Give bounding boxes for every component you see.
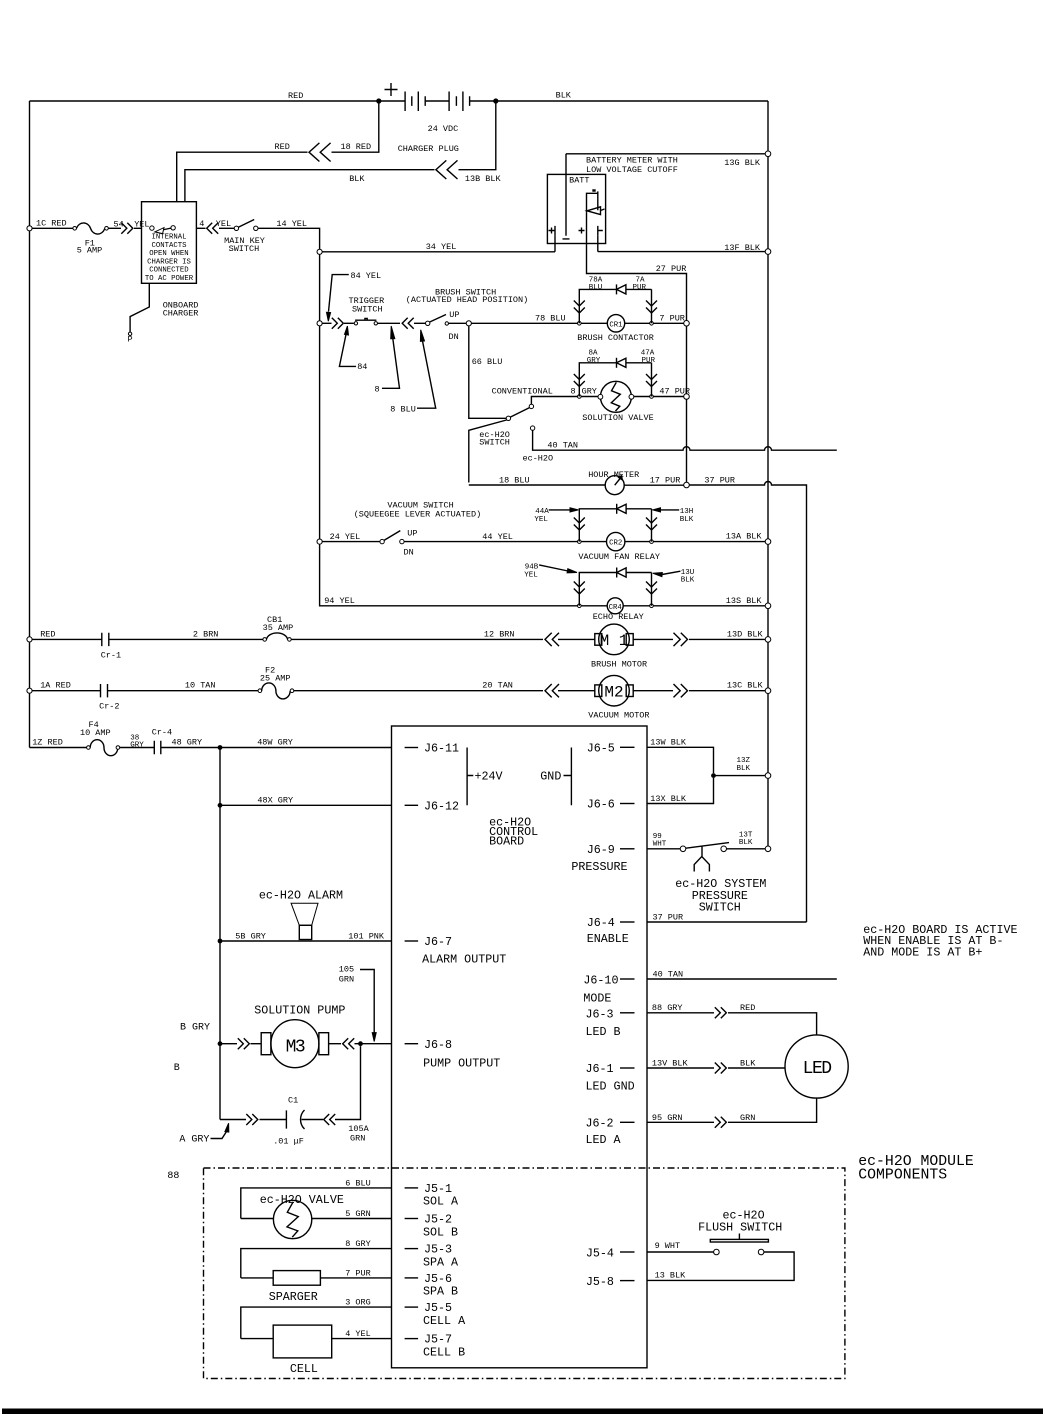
svg-text:GRY: GRY — [130, 742, 144, 750]
wire 48 GRY / 48W GRY to control board — [161, 738, 392, 748]
svg-text:LED GND: LED GND — [586, 1079, 635, 1093]
svg-text:CHARGER: CHARGER — [163, 309, 199, 319]
svg-text:SOLUTION VALVE: SOLUTION VALVE — [582, 413, 653, 423]
pointer label 105 GRN — [339, 965, 376, 1042]
svg-text:M 1: M 1 — [600, 632, 629, 650]
svg-text:13F BLK: 13F BLK — [724, 243, 761, 253]
svg-text:ec-H2O VALVE: ec-H2O VALVE — [260, 1193, 344, 1207]
svg-text:B: B — [174, 1063, 180, 1074]
junction 48X — [218, 803, 223, 808]
svg-text:BRUSH MOTOR: BRUSH MOTOR — [591, 660, 647, 670]
svg-text:BLK: BLK — [680, 516, 694, 524]
+24V bracket — [467, 748, 502, 806]
wire 3 ORG — [241, 1298, 392, 1339]
motor M2 vacuum motor — [558, 675, 650, 720]
svg-text:YEL: YEL — [534, 516, 548, 524]
svg-text:SWITCH: SWITCH — [479, 438, 510, 448]
connector 4 YEL — [196, 219, 234, 234]
svg-text:7 PUR: 7 PUR — [345, 1268, 371, 1278]
svg-text:4: 4 — [199, 219, 204, 229]
svg-text:CELL: CELL — [290, 1362, 318, 1376]
wire 8 GRY — [241, 1239, 392, 1278]
motor M3 solution pump — [254, 1004, 345, 1068]
junction 13Z — [711, 773, 716, 778]
svg-text:14 YEL: 14 YEL — [276, 219, 307, 229]
svg-text:CELL A: CELL A — [423, 1314, 466, 1328]
junction solution valve left — [578, 395, 582, 399]
svg-text:BATTERY METER WITH: BATTERY METER WITH — [586, 156, 678, 166]
circuit breaker CB1 35 AMP — [263, 615, 294, 641]
ground lead P of charger — [128, 283, 150, 344]
svg-text:.01 μF: .01 μF — [273, 1137, 304, 1147]
capacitor C1 .01 uF — [260, 1096, 370, 1147]
svg-text:17 PUR: 17 PUR — [650, 476, 681, 486]
wire 18 BLU diagonal from switch pivot — [469, 420, 507, 483]
node junction at battery left — [376, 98, 381, 103]
svg-text:ECHO RELAY: ECHO RELAY — [593, 612, 644, 622]
svg-text:84: 84 — [357, 362, 367, 372]
node 7 PUR on 27 PUR vertical — [684, 321, 690, 327]
wire 13B BLK with connector to charger box — [185, 101, 502, 202]
svg-text:ec-H2O ALARM: ec-H2O ALARM — [259, 889, 343, 903]
svg-text:CR1: CR1 — [609, 321, 623, 329]
svg-text:MODE: MODE — [583, 991, 611, 1005]
pin J5-8 — [586, 1275, 635, 1289]
wire 13G BLK — [566, 154, 765, 175]
svg-text:+24V: +24V — [475, 770, 503, 784]
svg-text:PUR: PUR — [633, 284, 647, 292]
svg-text:B GRY: B GRY — [180, 1023, 210, 1034]
svg-text:GRN: GRN — [350, 1134, 365, 1144]
wire 13F BLK — [598, 236, 765, 253]
wire 13C BLK with connector — [633, 681, 765, 698]
connector before brush switch — [378, 318, 426, 329]
pin J6-5 — [587, 741, 635, 755]
pin J5-4 — [586, 1247, 635, 1261]
svg-text:24 VDC: 24 VDC — [428, 124, 459, 134]
wire 13W BLK — [647, 738, 714, 774]
svg-text:J6-10: J6-10 — [583, 973, 618, 987]
node 13Z on right bus — [765, 773, 771, 779]
svg-text:BOARD: BOARD — [489, 835, 524, 849]
CR4 suppression diode bridge — [574, 568, 657, 606]
connector / wire to J6-8 — [329, 1038, 392, 1049]
wire 13A BLK — [653, 532, 765, 542]
motor M1 brush motor — [558, 624, 647, 669]
svg-text:13W BLK: 13W BLK — [650, 738, 687, 748]
svg-text:LOW VOLTAGE CUTOFF: LOW VOLTAGE CUTOFF — [586, 165, 678, 175]
svg-text:UP: UP — [407, 529, 417, 539]
svg-text:(ACTUATED HEAD POSITION): (ACTUATED HEAD POSITION) — [406, 295, 528, 305]
pointer label 44A YEL — [534, 508, 578, 524]
GND bracket — [540, 748, 571, 806]
relay coil CR1 brush contactor — [577, 315, 654, 343]
junction 5B GRY — [218, 939, 223, 944]
svg-text:J5-3: J5-3 — [424, 1243, 452, 1257]
node 13A on right bus — [765, 539, 771, 545]
svg-text:HOUR METER: HOUR METER — [588, 470, 639, 480]
fuse F4 10 AMP on 1Z RED row — [30, 720, 120, 756]
wire 27 PUR — [587, 212, 687, 482]
wire 44 YEL — [404, 532, 577, 542]
svg-text:SWITCH: SWITCH — [352, 305, 383, 315]
svg-text:BLU: BLU — [589, 284, 603, 292]
ec-H2O control board box — [392, 726, 648, 1368]
svg-text:8 GRY: 8 GRY — [345, 1239, 371, 1249]
svg-text:GRY: GRY — [587, 357, 601, 365]
pin J6-3 LED B — [586, 1008, 635, 1040]
svg-text:TO AC POWER: TO AC POWER — [145, 275, 194, 283]
sparger SP1 — [241, 1268, 392, 1304]
svg-text:40 TAN: 40 TAN — [547, 441, 578, 451]
pin J6-4 enable — [587, 916, 635, 946]
svg-text:CONNECTED: CONNECTED — [149, 267, 189, 275]
wire 37 PUR enable — [647, 913, 807, 923]
junction CR4 right — [650, 604, 654, 608]
node 13C on right bus — [765, 688, 771, 694]
svg-text:J5-8: J5-8 — [586, 1275, 614, 1289]
trigger switch S2 (pushbutton) — [344, 296, 384, 325]
svg-text:J6-3: J6-3 — [586, 1008, 614, 1022]
junction B GRY — [174, 1023, 223, 1075]
onboard charger box with internal contacts — [142, 202, 199, 319]
battery meter box BATT with low voltage cutoff — [547, 156, 677, 244]
svg-text:13H: 13H — [680, 508, 694, 516]
label 88 — [167, 1171, 179, 1182]
svg-text:101 PNK: 101 PNK — [348, 932, 385, 942]
svg-text:44A: 44A — [535, 508, 549, 516]
junction solution valve right — [650, 395, 654, 399]
ec-H2O system pressure switch S6 — [647, 832, 766, 915]
svg-text:27 PUR: 27 PUR — [656, 264, 687, 274]
capacitor Cr-4 — [120, 728, 172, 755]
wire 48 GRY sub-bus vertical — [219, 748, 221, 1120]
node 13D on right bus — [765, 637, 771, 643]
battery BT1 24 VDC charger plug — [379, 83, 496, 154]
svg-text:13V BLK: 13V BLK — [652, 1059, 689, 1069]
svg-text:37 PUR: 37 PUR — [653, 913, 684, 923]
pin J6-10 mode — [583, 973, 634, 1005]
svg-text:BRUSH CONTACTOR: BRUSH CONTACTOR — [577, 333, 654, 343]
svg-text:13G BLK: 13G BLK — [724, 158, 761, 168]
brush switch S3 (actuated head position) — [406, 288, 528, 342]
svg-text:CHARGER IS: CHARGER IS — [147, 258, 191, 266]
wire from pump junction down to C1 row — [335, 1046, 361, 1119]
svg-text:C1: C1 — [288, 1096, 298, 1106]
svg-text:J6-5: J6-5 — [587, 741, 615, 755]
svg-text:88: 88 — [167, 1171, 179, 1182]
svg-text:SOL B: SOL B — [423, 1226, 458, 1240]
relay coil CR4 echo relay — [581, 598, 650, 622]
svg-text:J6-8: J6-8 — [424, 1038, 452, 1052]
junction CR2 right — [650, 540, 654, 544]
node 1C RED on left bus — [27, 219, 67, 231]
svg-text:5B GRY: 5B GRY — [235, 932, 266, 942]
svg-text:ALARM OUTPUT: ALARM OUTPUT — [422, 953, 506, 967]
svg-text:13A BLK: 13A BLK — [726, 532, 763, 542]
svg-text:RED: RED — [275, 142, 290, 152]
node RED brush motor row on left bus — [27, 630, 56, 643]
wire 5B GRY / 101 PNK alarm output row — [220, 932, 392, 942]
svg-text:PRESSURE: PRESSURE — [571, 860, 627, 874]
alarm AL1 ec-H2O alarm — [259, 889, 343, 940]
svg-text:88 GRY: 88 GRY — [652, 1003, 683, 1013]
svg-text:J5-7: J5-7 — [424, 1333, 452, 1347]
wire 94 YEL — [320, 544, 578, 606]
svg-text:J6-9: J6-9 — [587, 843, 615, 857]
svg-text:YEL: YEL — [216, 219, 231, 229]
node 13T on right bus — [765, 846, 771, 852]
connector on trigger row — [322, 318, 343, 329]
svg-text:12 BRN: 12 BRN — [484, 630, 515, 640]
svg-text:RED: RED — [40, 630, 55, 640]
svg-text:48X GRY: 48X GRY — [257, 796, 293, 806]
svg-text:BLK: BLK — [740, 1059, 756, 1069]
svg-text:SPA B: SPA B — [423, 1285, 458, 1299]
svg-text:CONTACTS: CONTACTS — [151, 242, 187, 250]
pin J5-5 cell A — [405, 1301, 466, 1328]
svg-text:3 ORG: 3 ORG — [345, 1298, 371, 1308]
svg-text:FLUSH SWITCH: FLUSH SWITCH — [698, 1221, 782, 1235]
relay coil CR2 vacuum fan relay — [578, 532, 660, 562]
connector 54 YEL — [108, 220, 149, 234]
svg-text:VACUUM FAN RELAY: VACUUM FAN RELAY — [578, 552, 660, 562]
svg-text:48 GRY: 48 GRY — [172, 738, 203, 748]
capacitor Cr-2 — [32, 681, 258, 712]
svg-text:18 RED: 18 RED — [341, 142, 372, 152]
pin J5-2 sol B — [405, 1213, 458, 1240]
svg-text:95 GRN: 95 GRN — [652, 1113, 683, 1123]
node 1A RED vacuum motor row on left bus — [27, 681, 71, 694]
svg-text:BLK: BLK — [681, 577, 695, 585]
svg-text:13 BLK: 13 BLK — [655, 1271, 687, 1281]
wire 13Z BLK — [714, 757, 766, 776]
wire 13X BLK — [647, 778, 714, 804]
svg-text:7 PUR: 7 PUR — [659, 314, 685, 324]
svg-text:Cr-2: Cr-2 — [99, 702, 119, 712]
wire top BLK from battery to right bus — [496, 91, 768, 102]
connector on C1 row left — [220, 1114, 258, 1125]
svg-text:66 BLU: 66 BLU — [472, 357, 503, 367]
svg-text:SOL A: SOL A — [423, 1195, 459, 1209]
svg-text:BLK: BLK — [556, 91, 572, 101]
svg-text:GRY: GRY — [582, 387, 597, 397]
svg-text:BLK: BLK — [737, 765, 751, 773]
svg-text:INTERNAL: INTERNAL — [151, 234, 186, 242]
wire 6 BLU — [241, 1179, 392, 1219]
capacitor Cr-1 — [32, 630, 263, 661]
svg-text:CR2: CR2 — [609, 540, 622, 548]
svg-text:10 AMP: 10 AMP — [80, 728, 111, 738]
pin J6-11 — [405, 742, 459, 756]
wire 17 PUR — [624, 476, 684, 486]
note text ec-H2O board active — [863, 923, 1017, 959]
wire 13S BLK — [653, 596, 765, 606]
pin J5-6 spa B — [405, 1272, 458, 1299]
svg-text:8: 8 — [571, 387, 576, 397]
wire 47 PUR — [653, 396, 683, 398]
ec-H2O module components dashed box — [204, 1154, 974, 1379]
svg-text:5 AMP: 5 AMP — [77, 246, 103, 256]
svg-text:10 TAN: 10 TAN — [185, 681, 216, 691]
svg-text:Cr-4: Cr-4 — [152, 728, 172, 738]
node 17 PUR end of 27 PUR vertical — [684, 482, 690, 488]
pin J6-9 pressure — [571, 843, 634, 874]
ec-H2O flush switch S7 — [647, 1209, 794, 1281]
junction CR1 left — [578, 322, 582, 326]
wire 13D BLK with connector — [633, 630, 765, 647]
svg-text:84 YEL: 84 YEL — [351, 271, 382, 281]
ec-H2O switch S4 — [479, 387, 553, 448]
svg-text:LED A: LED A — [586, 1133, 622, 1147]
svg-text:13D BLK: 13D BLK — [727, 630, 764, 640]
pin J6-12 — [405, 799, 459, 813]
svg-text:105A: 105A — [348, 1124, 369, 1134]
svg-text:WHT: WHT — [653, 841, 667, 849]
svg-text:P: P — [128, 335, 133, 345]
cell CEL1 — [241, 1325, 392, 1376]
svg-text:COMPONENTS: COMPONENTS — [858, 1168, 947, 1184]
pointer label 84 — [339, 326, 367, 372]
svg-text:105: 105 — [339, 965, 354, 975]
wire top RED from left bus to battery — [30, 91, 379, 101]
wire 88 GRY / RED to LED — [647, 1003, 817, 1035]
CR1 suppression diode bridge with connectors 78A BLU / 7A PUR — [574, 277, 657, 324]
svg-text:J6-12: J6-12 — [424, 799, 459, 813]
svg-text:J5-5: J5-5 — [424, 1301, 452, 1315]
svg-text:(SQUEEGEE LEVER ACTUATED): (SQUEEGEE LEVER ACTUATED) — [354, 510, 482, 520]
junction CR1 right — [650, 322, 654, 326]
node 13S on right bus — [765, 603, 771, 609]
svg-text:GRN: GRN — [339, 975, 354, 985]
wire 20 TAN with connector — [294, 681, 559, 698]
pointer label 84 YEL — [327, 271, 382, 321]
pointer label 94B YEL — [524, 564, 577, 580]
svg-text:DN: DN — [449, 332, 459, 342]
node 13G on right bus — [765, 151, 771, 157]
svg-text:YEL: YEL — [524, 572, 538, 580]
svg-text:24 YEL: 24 YEL — [330, 532, 361, 542]
svg-text:J6-7: J6-7 — [424, 935, 452, 949]
svg-text:44 YEL: 44 YEL — [482, 532, 513, 542]
svg-text:13C BLK: 13C BLK — [727, 681, 764, 691]
svg-text:BLK: BLK — [739, 839, 753, 847]
pin J6-7 alarm output — [405, 935, 507, 967]
pin J6-2 LED A — [586, 1117, 635, 1148]
svg-text:13X BLK: 13X BLK — [650, 794, 687, 804]
pointer label 13H BLK — [653, 508, 694, 524]
svg-text:6 BLU: 6 BLU — [345, 1179, 371, 1189]
svg-text:J6-11: J6-11 — [424, 742, 459, 756]
svg-text:A GRY: A GRY — [179, 1135, 209, 1146]
svg-text:18 BLU: 18 BLU — [499, 476, 530, 486]
svg-text:Cr-1: Cr-1 — [101, 651, 121, 661]
node 47 PUR on 27 PUR vertical — [684, 394, 690, 400]
svg-text:BATT: BATT — [569, 176, 589, 186]
svg-text:PUR: PUR — [642, 357, 656, 365]
fuse F2 25 AMP — [258, 666, 294, 699]
svg-text:1C RED: 1C RED — [36, 219, 67, 229]
node junction at battery right — [493, 98, 498, 103]
wire conventional contact to solution valve row — [531, 397, 577, 405]
svg-text:8 BLU: 8 BLU — [390, 405, 416, 415]
svg-text:13B BLK: 13B BLK — [465, 174, 502, 184]
svg-text:5 GRN: 5 GRN — [345, 1209, 371, 1219]
wire left bus vertical — [29, 101, 31, 748]
connector on C1 row right — [302, 1114, 336, 1125]
svg-text:GND: GND — [540, 770, 561, 784]
svg-text:J5-4: J5-4 — [586, 1247, 614, 1261]
svg-text:4 YEL: 4 YEL — [345, 1329, 371, 1339]
wire 48X GRY — [220, 796, 392, 806]
wire right BLK bus vertical — [767, 101, 769, 846]
pin J6-1 LED GND — [586, 1062, 635, 1093]
svg-text:RED: RED — [288, 91, 303, 101]
svg-text:PUMP OUTPUT: PUMP OUTPUT — [423, 1057, 500, 1071]
node 13F on right bus — [765, 249, 771, 255]
solution valve SOL2 — [571, 381, 691, 423]
svg-text:DN: DN — [404, 548, 414, 558]
svg-text:CONVENTIONAL: CONVENTIONAL — [492, 387, 553, 397]
node vacuum switch row — [317, 539, 322, 544]
svg-text:13Z: 13Z — [737, 757, 751, 765]
svg-text:OPEN WHEN: OPEN WHEN — [149, 250, 188, 258]
svg-text:LED B: LED B — [586, 1025, 621, 1039]
hour meter HM1 — [469, 470, 639, 495]
svg-text:78 BLU: 78 BLU — [535, 314, 566, 324]
CR2 suppression diode bridge — [574, 504, 657, 542]
wire 14 YEL vertical to trigger row — [319, 254, 321, 539]
svg-text:25 AMP: 25 AMP — [260, 674, 291, 684]
node 66 BLU drop — [466, 321, 577, 326]
svg-text:8: 8 — [375, 385, 380, 395]
svg-text:13S BLK: 13S BLK — [726, 596, 763, 606]
wire 66 BLU vertical — [469, 326, 506, 418]
svg-text:CHARGER PLUG: CHARGER PLUG — [398, 144, 459, 154]
svg-text:9 WHT: 9 WHT — [655, 1241, 681, 1251]
pointer label 13U BLK — [653, 569, 695, 585]
svg-text:RED: RED — [740, 1003, 755, 1013]
svg-text:LED: LED — [803, 1059, 832, 1079]
node on 14 YEL vertical — [317, 249, 322, 254]
pin J6-8 pump output — [405, 1038, 501, 1071]
wire 14 YEL — [258, 219, 320, 249]
ec-H2O valve SOL3 — [241, 1193, 392, 1239]
svg-text:2 BRN: 2 BRN — [193, 630, 219, 640]
svg-text:SPARGER: SPARGER — [269, 1290, 318, 1304]
pointer label 8 — [375, 326, 400, 395]
svg-text:M3: M3 — [286, 1038, 305, 1058]
svg-text:VACUUM MOTOR: VACUUM MOTOR — [588, 711, 649, 721]
wire 7 PUR — [653, 314, 685, 324]
svg-text:SWITCH: SWITCH — [229, 244, 260, 254]
svg-text:GRN: GRN — [740, 1113, 755, 1123]
svg-text:48W GRY: 48W GRY — [257, 738, 293, 748]
junction CR2 left — [578, 540, 582, 544]
wire 37 PUR to right vertical — [689, 476, 806, 923]
junction 48 GRY — [218, 745, 223, 750]
svg-text:SPA A: SPA A — [423, 1256, 459, 1270]
svg-text:BLK: BLK — [349, 174, 365, 184]
connector on pump row — [222, 1038, 261, 1049]
pin J5-3 spa A — [405, 1243, 459, 1270]
svg-text:94B: 94B — [525, 564, 539, 572]
svg-text:J6-4: J6-4 — [587, 916, 615, 930]
wire 40 TAN mode — [647, 970, 837, 980]
svg-text:M2: M2 — [604, 683, 623, 701]
pointer label A GRY — [179, 1123, 228, 1145]
wire 12 BRN with connector — [291, 630, 559, 647]
